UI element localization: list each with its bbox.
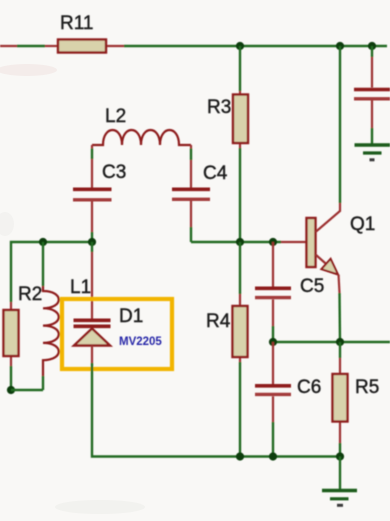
- svg-text:Q1: Q1: [350, 214, 375, 235]
- svg-text:C6: C6: [297, 377, 321, 398]
- node mid rail x273: [269, 338, 277, 346]
- svg-text:R5: R5: [355, 377, 379, 398]
- wire C5 bottom: [272, 326, 274, 342]
- node bottom rail x273: [269, 452, 277, 460]
- wire cap to ground: [371, 128, 373, 144]
- wire D1 top: [91, 242, 93, 252]
- svg-text:D1: D1: [119, 306, 143, 327]
- wire C6 bottom: [272, 422, 274, 457]
- wire R2 bottom: [10, 366, 12, 390]
- node base row x273: [269, 238, 277, 246]
- wire D1 to bottom rail: [92, 363, 340, 457]
- wire R5 top: [339, 342, 341, 358]
- wire L1 top: [42, 242, 44, 286]
- wire top rail left green: [17, 45, 45, 47]
- wire ground stem bottom: [339, 457, 341, 490]
- svg-text:L1: L1: [70, 277, 91, 298]
- resistor R4: [233, 294, 248, 362]
- resistor R2: [4, 302, 19, 366]
- svg-text:C5: C5: [300, 276, 324, 297]
- wire emitter down: [338, 293, 341, 342]
- svg-text:R2: R2: [18, 284, 42, 305]
- wire C3 bottom: [91, 232, 93, 242]
- wire base row: [191, 241, 281, 243]
- node top rail x340: [336, 42, 344, 50]
- svg-text:L2: L2: [105, 106, 126, 127]
- wire mid rail: [273, 341, 390, 343]
- node top rail x240: [236, 42, 244, 50]
- wire R5 bottom: [339, 443, 341, 457]
- node left rail x92: [88, 238, 96, 246]
- node mid rail x340: [336, 338, 344, 346]
- capacitor C6: [255, 342, 291, 422]
- node top rail x372: [368, 42, 376, 50]
- node bottom left: [7, 386, 15, 394]
- resistor R11: [45, 40, 124, 53]
- highlight box around D1: [62, 299, 172, 369]
- node left rail x43: [39, 238, 47, 246]
- node bottom rail x340: [336, 452, 344, 460]
- wire L1 bottom: [42, 376, 44, 390]
- node base row x240: [236, 238, 244, 246]
- resistor R3: [233, 91, 248, 148]
- svg-text:MV2205: MV2205: [119, 336, 162, 348]
- wire x240 top: [239, 46, 241, 91]
- resistor R5: [333, 358, 348, 443]
- diode D1 varactor: [74, 252, 111, 363]
- transistor Q1: [281, 203, 340, 293]
- wire bottom left horizontal: [11, 389, 43, 391]
- capacitor C4: [172, 145, 210, 227]
- wire top rail right: [124, 45, 387, 47]
- capacitor (unlabeled, top right): [354, 46, 390, 128]
- ground (top right): [355, 145, 390, 160]
- wire R4 bottom: [239, 362, 241, 457]
- wire left rail: [11, 242, 92, 302]
- wire x340 collector vertical: [339, 46, 341, 203]
- svg-text:C4: C4: [203, 163, 228, 184]
- svg-text:R4: R4: [206, 311, 231, 332]
- svg-text:C3: C3: [102, 162, 126, 183]
- inductor L1: [43, 286, 59, 376]
- capacitor C3: [73, 145, 112, 232]
- wire C4 bottom: [190, 227, 192, 242]
- inductor L2: [92, 130, 191, 145]
- wire R4 top: [239, 242, 241, 294]
- node bottom rail x240: [236, 452, 244, 460]
- ground (bottom right): [322, 491, 357, 506]
- wire x240 mid: [239, 148, 241, 242]
- svg-text:R11: R11: [60, 13, 93, 34]
- capacitor C5: [255, 242, 291, 326]
- svg-text:R3: R3: [207, 97, 231, 118]
- wire top rail left stub: [0, 45, 17, 47]
